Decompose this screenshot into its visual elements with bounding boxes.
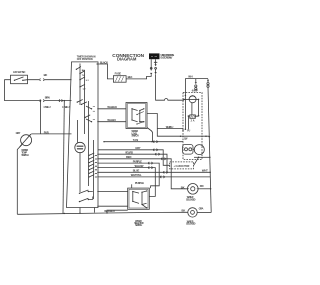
wire water level switch out right, down to motor — [147, 114, 209, 137]
junction node on motor feed — [183, 99, 185, 101]
timer motor drop to bottom rail — [79, 208, 81, 214]
svg-text:WH: WH — [188, 75, 192, 79]
temperature switch (rotary) — [21, 135, 32, 146]
bottom rail — [17, 212, 188, 214]
timer bottom contact cluster — [79, 193, 80, 194]
label BRN — [45, 95, 50, 99]
svg-text:SWITCH: SWITCH — [132, 136, 139, 138]
timer internal bus — [80, 64, 94, 200]
svg-text:DIAGRAM: DIAGRAM — [117, 56, 136, 61]
svg-text:HI: HI — [86, 80, 89, 82]
connector pair on BK wire — [39, 79, 44, 81]
plug prong right (arrow down, continues as neutral wire) — [155, 69, 157, 72]
wire lid switch to timer (BK) — [28, 79, 72, 81]
hot water solenoid — [188, 184, 199, 195]
wire selector bottom-left to rail (WHT/BLU) — [107, 210, 128, 213]
neutral wire from plug down and right to motor box — [156, 74, 184, 100]
svg-text:BH: BH — [82, 70, 85, 72]
wire band row2 GRY to capacitor — [98, 150, 170, 166]
svg-text:WH-BLK: WH-BLK — [107, 105, 117, 109]
timer ladder contacts (lower) — [88, 153, 97, 178]
svg-text:PUR: PUR — [44, 130, 49, 134]
timer contacts mid cluster — [77, 101, 78, 102]
neutral return wire to right rail top — [185, 79, 208, 96]
ground arrow symbol — [154, 61, 157, 65]
title CONNECTION DIAGRAM — [112, 53, 144, 61]
temp switch caption — [21, 149, 28, 157]
wire band row1 TAN — [104, 141, 183, 143]
wire band row6 YELLOW to selector right — [97, 168, 155, 197]
svg-text:WHT/YEL: WHT/YEL — [131, 173, 142, 177]
svg-text:GRY: GRY — [16, 131, 21, 135]
svg-text:FU: FU — [187, 129, 190, 132]
wire band row4 RED to hot solenoid — [97, 159, 187, 189]
svg-text:BK: BK — [182, 209, 186, 213]
svg-text:TH: TH — [82, 75, 85, 77]
timer BLACK feed out of top right — [97, 63, 99, 65]
svg-text:WATER: WATER — [132, 130, 139, 133]
connector pair near timer on BRN wire — [59, 99, 63, 101]
label WH on hot wire — [188, 75, 192, 79]
motor assembly dashed box — [183, 93, 202, 160]
label CW — [184, 138, 188, 141]
svg-text:YELLOW: YELLOW — [134, 164, 144, 168]
wire solenoid right to rail — [198, 188, 211, 190]
svg-text:WH-BLU: WH-BLU — [166, 126, 174, 129]
label LT BLU (right) — [62, 105, 69, 109]
label BK — [44, 73, 48, 77]
wire band row8 WHT/YEL to right rail — [97, 176, 210, 178]
svg-text:BLACK: BLACK — [100, 60, 108, 64]
svg-text:OFF POSITION: OFF POSITION — [77, 58, 93, 61]
rail junction dots — [209, 136, 211, 138]
svg-text:LEVEL: LEVEL — [132, 133, 139, 135]
svg-text:BRN: BRN — [45, 95, 50, 99]
water level switch contacts — [131, 108, 132, 109]
svg-text:SWITCH: SWITCH — [21, 154, 28, 157]
plug leads down — [151, 59, 155, 70]
svg-text:TAN: TAN — [133, 138, 138, 142]
svg-text:GRA: GRA — [199, 206, 204, 210]
svg-text:6 AMP: 6 AMP — [192, 90, 198, 93]
label GRA — [199, 206, 204, 210]
connector pair on BRN wire — [39, 99, 44, 101]
motor circle — [194, 145, 204, 155]
branch arrow into motor box top — [195, 79, 197, 82]
branch from water level switch bottom to TAN wire — [147, 128, 153, 142]
cold water solenoid — [188, 208, 197, 217]
label BLACK — [100, 60, 108, 64]
label BK — [182, 209, 186, 213]
svg-text:BK: BK — [44, 73, 48, 77]
timer box — [67, 62, 99, 208]
fuse label — [115, 71, 122, 75]
wire band row3 YEL/RD drops to blue run — [97, 154, 167, 172]
neutral wire down left side of timer to bottom rail — [63, 101, 64, 214]
motor protector box — [190, 115, 196, 118]
svg-text:FUSE: FUSE — [115, 71, 122, 75]
svg-text:WH-BU: WH-BU — [107, 118, 116, 122]
label FU — [187, 129, 190, 132]
wire timer to water level switch WH-BLK — [97, 108, 126, 110]
plug note text USE COPPER WIRE ONLY — [161, 54, 175, 59]
label 6A — [192, 90, 198, 93]
svg-text:LO: LO — [83, 88, 86, 90]
wire motor to rail — [194, 156, 210, 158]
start switch right drop — [198, 99, 200, 101]
svg-text:GRY: GRY — [135, 146, 141, 150]
wire temp switch wiper down to bottom rail — [17, 145, 22, 215]
svg-text:BK: BK — [181, 185, 185, 189]
wire band row7 BLUE/WHT to right rail — [97, 171, 210, 173]
svg-text:SOLENOID: SOLENOID — [186, 199, 196, 201]
svg-text:WATER: WATER — [135, 220, 142, 223]
svg-text:BLUE: BLUE — [133, 169, 140, 173]
wire band row5 PURPLE to selector — [97, 163, 159, 188]
lid switch label — [13, 70, 25, 74]
capacitor dashed box — [170, 162, 194, 169]
wire timer BLACK to fuse — [97, 64, 114, 79]
label + CAPACITOR — [174, 165, 190, 168]
svg-text:SELECTOR: SELECTOR — [134, 223, 144, 225]
hot wire BLK from fuse to plug prong — [126, 75, 151, 79]
cold solenoid caption — [186, 220, 196, 225]
power plug (black box) — [149, 53, 160, 59]
right rail (vertical, slight scan slant) — [208, 87, 211, 212]
internal node drop — [185, 95, 187, 97]
wire solenoid right to rail end — [197, 212, 211, 214]
motor winding block — [183, 145, 193, 155]
label PUR — [44, 130, 49, 134]
svg-text:SWITCH: SWITCH — [135, 225, 142, 227]
svg-text:DUCTORS ONLY: DUCTORS ONLY — [161, 57, 173, 60]
svg-text:PURPLE: PURPLE — [133, 159, 142, 163]
label GRY — [16, 131, 21, 135]
svg-text:LT BLU: LT BLU — [62, 105, 69, 109]
branch down to temp switch (PUR) — [40, 101, 42, 134]
label BK — [181, 185, 185, 189]
svg-text:SOLENOID: SOLENOID — [186, 224, 196, 226]
wire temp switch to timer — [31, 133, 71, 135]
capacitor to motor wire — [194, 157, 199, 165]
svg-text:LID SW NC: LID SW NC — [13, 70, 25, 74]
svg-text:PURPLE: PURPLE — [135, 181, 144, 185]
svg-text:BLK: BLK — [128, 75, 133, 79]
plug prong left (arrow down to fuse wire) — [150, 73, 152, 75]
wires timer to selector switch — [97, 192, 127, 207]
svg-text:WATER: WATER — [187, 220, 194, 223]
connector pairs on band wires — [148, 141, 167, 179]
wire timer to water level switch WH-BU — [97, 121, 126, 123]
svg-text:LT BLU: LT BLU — [44, 105, 51, 109]
lid switch contacts — [14, 80, 15, 81]
label BLK — [128, 75, 133, 79]
timer label — [77, 56, 96, 62]
fuse box — [113, 76, 126, 83]
svg-text:RED: RED — [126, 155, 131, 159]
timer contact terminal ticks — [82, 70, 89, 90]
svg-text:WHT: WHT — [202, 168, 208, 172]
stub from selector top to purple wire — [131, 184, 133, 188]
water level switch box — [126, 103, 147, 129]
svg-text:2 A: 2 A — [191, 120, 195, 123]
right rail top connector (arrow + terminals) — [207, 79, 209, 81]
label 2A under protector — [191, 120, 195, 123]
selector contacts — [132, 191, 133, 192]
hot solenoid caption — [186, 196, 196, 201]
water level switch caption — [132, 130, 139, 137]
selector caption — [134, 220, 144, 227]
svg-text:+ CAPACITOR: + CAPACITOR — [174, 165, 190, 168]
label LT BLU (left) — [44, 105, 51, 109]
motor start switch circle — [189, 96, 196, 103]
svg-text:RD: RD — [200, 184, 204, 188]
label RD — [200, 184, 204, 188]
label PURPLE above selector — [135, 181, 144, 185]
junction node on BRN wire — [64, 100, 66, 102]
wire lid switch left side down to lower feed (BRN) — [5, 80, 72, 101]
lid switch box — [11, 75, 28, 84]
timer internal contacts (top cluster) — [76, 69, 77, 70]
svg-text:WATER: WATER — [187, 196, 194, 199]
timer motor circle — [75, 142, 85, 152]
water selector switch box — [128, 188, 150, 209]
svg-text:YEL/RD: YEL/RD — [125, 151, 133, 155]
svg-text:CW: CW — [184, 138, 188, 141]
